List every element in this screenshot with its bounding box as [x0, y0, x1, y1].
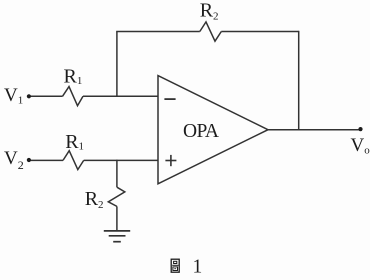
resistor R1 inverting-input zigzag — [63, 87, 84, 106]
node Vo output terminal dot — [358, 127, 362, 131]
op-amp U1 triangle — [158, 76, 268, 184]
wire R1 to op-amp inverting input — [83, 95, 158, 97]
svg-text:R1: R1 — [65, 131, 84, 153]
svg-text:V2: V2 — [4, 148, 24, 172]
resistor R2 feedback zigzag — [200, 22, 222, 41]
wire V2 terminal to R1 — [30, 159, 63, 161]
svg-text:OPA: OPA — [183, 121, 219, 142]
wire R1 to op-amp non-inverting input — [84, 159, 158, 161]
wire feedback top right segment — [221, 31, 298, 33]
caption figure glyph (圖) drawn as strokes — [171, 259, 179, 272]
svg-text:R1: R1 — [64, 66, 83, 88]
ground — [104, 231, 130, 242]
wire feedback left vertical (inverting node to top rail) — [116, 32, 118, 97]
svg-text:Vo: Vo — [351, 135, 370, 157]
svg-text:R2: R2 — [85, 188, 104, 211]
wire junction down to grounding resistor R2 — [116, 160, 118, 188]
svg-text:V1: V1 — [4, 85, 23, 107]
svg-text:1: 1 — [193, 256, 203, 277]
node V2 input terminal dot — [27, 158, 31, 162]
resistor R2 to ground vertical zigzag — [108, 187, 125, 206]
op-amp non-inverting input marker (plus) — [165, 155, 176, 166]
wire V1 terminal to R1 — [30, 95, 63, 97]
wire op-amp output to Vo terminal — [268, 129, 361, 131]
node V1 input terminal dot — [27, 94, 31, 98]
wire feedback right vertical (top rail down to output) — [298, 31, 300, 130]
wire feedback top left segment — [116, 31, 200, 33]
wire R2 to ground symbol — [116, 206, 118, 231]
svg-text:R2: R2 — [200, 0, 219, 23]
resistor R1 non-inverting-input zigzag — [63, 151, 84, 170]
op-amp inverting input marker (minus) — [164, 98, 175, 100]
